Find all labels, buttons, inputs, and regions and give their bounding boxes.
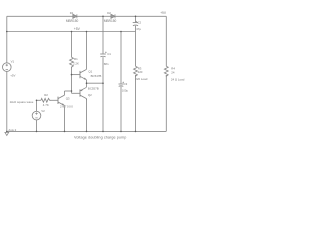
transistor Q2 pnp bbox=[80, 87, 87, 100]
wire C1 column bottom bbox=[102, 57, 104, 131]
ground flag bbox=[5, 132, 9, 135]
svg-text:MBR150: MBR150 bbox=[104, 19, 117, 23]
svg-text:220: 220 bbox=[138, 70, 143, 74]
wire Q2 collector down bbox=[86, 99, 88, 131]
svg-text:Q3: Q3 bbox=[66, 97, 70, 101]
wire C2 R3 column bbox=[135, 16, 137, 131]
wire Q3 collector to base column bbox=[65, 90, 72, 92]
wire output node to C1 bbox=[87, 82, 104, 84]
svg-text:2N7000: 2N7000 bbox=[60, 104, 73, 108]
svg-text:24: 24 bbox=[171, 71, 175, 75]
svg-text:C1: C1 bbox=[107, 52, 111, 56]
wire C1 column top bbox=[102, 16, 104, 53]
voltage source V2 bbox=[32, 111, 41, 120]
voltage source V1 bbox=[3, 63, 12, 72]
svg-text:BC547B: BC547B bbox=[91, 74, 102, 78]
svg-text:220 Load: 220 Load bbox=[135, 77, 147, 81]
wire Q3 emitter down bbox=[64, 106, 66, 131]
wire R1 bottom to base column bbox=[71, 67, 73, 94]
svg-text:R1: R1 bbox=[74, 57, 78, 61]
wire R2 to Q3 base bbox=[50, 99, 59, 101]
diode D2 bbox=[111, 14, 115, 18]
wire top rail +9V bbox=[7, 15, 167, 17]
svg-text:47µ: 47µ bbox=[136, 27, 141, 31]
diode D1 bbox=[73, 14, 77, 18]
resistor R2 bbox=[41, 98, 50, 102]
resistor R1 bbox=[70, 57, 74, 67]
svg-text:D2: D2 bbox=[107, 11, 111, 15]
svg-text:4.7K: 4.7K bbox=[43, 103, 49, 107]
svg-text:100µ: 100µ bbox=[122, 89, 128, 93]
capacitor C3 bbox=[119, 82, 125, 87]
svg-text:D1: D1 bbox=[70, 11, 74, 15]
wire V2 bottom bbox=[36, 120, 38, 131]
svg-text:Axis 2: Axis 2 bbox=[8, 128, 16, 132]
svg-text:1kHz square wave: 1kHz square wave bbox=[10, 100, 34, 104]
capacitor C1 bbox=[100, 52, 107, 57]
svg-text:V1: V1 bbox=[11, 59, 15, 63]
wire C3 column bbox=[120, 32, 122, 132]
capacitor C2 bbox=[133, 21, 139, 26]
svg-text:+5V: +5V bbox=[74, 27, 81, 31]
svg-text:+5V: +5V bbox=[10, 74, 15, 78]
transistor Q3 npn bbox=[58, 91, 65, 106]
svg-text:24 Ω Load: 24 Ω Load bbox=[171, 77, 185, 81]
svg-text:R2: R2 bbox=[44, 93, 48, 97]
resistor R3 load bbox=[134, 66, 138, 76]
svg-text:+9V: +9V bbox=[160, 11, 167, 15]
wire V2 to R2 bbox=[37, 99, 41, 101]
wire +5V rail bbox=[7, 31, 136, 33]
svg-text:BC557B: BC557B bbox=[88, 87, 99, 91]
wire left vertical V1 to rails bbox=[6, 16, 8, 131]
svg-text:Q2: Q2 bbox=[88, 93, 92, 97]
svg-text:C3: C3 bbox=[124, 82, 128, 86]
wire right side vertical bbox=[165, 16, 167, 131]
wire bottom ground rail bbox=[7, 130, 167, 132]
svg-text:MBR150: MBR150 bbox=[66, 19, 79, 23]
wire V2 top bbox=[36, 100, 38, 111]
svg-text:Q1: Q1 bbox=[88, 70, 92, 74]
svg-text:68n: 68n bbox=[104, 62, 109, 66]
svg-text:C2: C2 bbox=[137, 21, 141, 25]
wire Q1 collector to +5V bbox=[86, 32, 88, 70]
svg-text:Voltage doubling charge pump: Voltage doubling charge pump bbox=[74, 135, 126, 139]
transistor Q1 npn bbox=[80, 69, 87, 79]
svg-text:V2: V2 bbox=[41, 109, 45, 113]
wire Q1 base stub bbox=[72, 74, 81, 76]
svg-text:2.2K: 2.2K bbox=[73, 62, 79, 66]
wire emitters junction bbox=[86, 80, 88, 87]
wire Q2 base stub bbox=[72, 92, 81, 94]
junction dots bbox=[6, 15, 136, 132]
resistor R4 load bbox=[164, 66, 168, 76]
wire R1 top bbox=[71, 32, 73, 58]
